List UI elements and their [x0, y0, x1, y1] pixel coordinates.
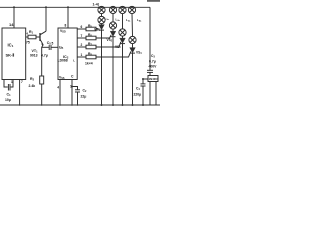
svg-text:R6: R6: [88, 33, 92, 38]
wire top bus: [0, 6, 150, 8]
svg-text:SK-Ⅱ: SK-Ⅱ: [6, 53, 15, 58]
resistor R7: [77, 46, 86, 48]
svg-text:1k×4: 1k×4: [85, 62, 93, 66]
wire emitter node down: [42, 45, 44, 76]
wire box right leg to bus: [155, 82, 157, 106]
svg-text:VS1: VS1: [94, 28, 100, 32]
lamp L1b: [98, 16, 105, 23]
svg-text:R1: R1: [29, 30, 34, 35]
svg-text:LD068: LD068: [58, 59, 68, 63]
svg-text:0.7μ: 0.7μ: [149, 60, 156, 64]
svg-text:9013: 9013: [30, 54, 38, 58]
svg-text:C1: C1: [7, 93, 12, 98]
svg-text:4.7μ: 4.7μ: [41, 54, 48, 58]
wire box left pin: [143, 78, 148, 80]
svg-text:4: 4: [57, 85, 59, 89]
svg-text:R7: R7: [88, 42, 92, 47]
wire IC1 pin7 to bottom bus: [19, 80, 21, 106]
svg-text:2.4k: 2.4k: [29, 84, 36, 88]
wire VS4 cathode to bus: [132, 53, 134, 105]
wire lamp column 1: [101, 14, 103, 25]
svg-text:C2: C2: [83, 89, 87, 94]
svg-text:R2: R2: [30, 77, 35, 82]
thyristor VS4: [130, 48, 136, 53]
lamp L3a: [119, 6, 126, 13]
wire collector to top bus: [45, 7, 47, 31]
svg-text:5: 5: [52, 42, 54, 46]
svg-text:UB: UB: [59, 46, 63, 51]
lamp L4a: [128, 6, 135, 13]
svg-text:1-4(: 1-4(: [93, 3, 100, 7]
svg-text:R8: R8: [88, 52, 92, 57]
lamp L3b: [119, 29, 126, 36]
node lamp top junctions: [101, 6, 103, 8]
resistor R1: [26, 36, 28, 38]
lamp L2b: [109, 22, 116, 29]
svg-text:L2a: L2a: [116, 18, 121, 22]
lamp L2a: [109, 6, 116, 13]
svg-text:VDD: VDD: [60, 29, 66, 34]
wire pin14 of IC1: [13, 7, 15, 28]
resistor R8: [77, 56, 86, 58]
wire lamp column 2: [112, 14, 114, 32]
svg-text:1: 1: [81, 53, 83, 57]
svg-text:C4: C4: [136, 87, 140, 92]
resistor R2: [40, 76, 44, 84]
IC U2 box: [58, 28, 77, 80]
svg-text:75: 75: [26, 41, 30, 45]
svg-text:2: 2: [81, 43, 83, 47]
svg-text:22μ: 22μ: [81, 95, 87, 99]
capacitor C4: [142, 79, 144, 84]
node Vdd junction: [67, 6, 69, 8]
svg-text:R5: R5: [88, 24, 92, 29]
svg-text:10μ: 10μ: [5, 98, 11, 102]
svg-text:400V: 400V: [149, 65, 158, 69]
node C4 junction: [142, 78, 144, 80]
node pin14 junction: [13, 6, 15, 8]
svg-text:1N4007: 1N4007: [149, 77, 159, 81]
svg-text:L1a: L1a: [105, 17, 110, 21]
wire IC2 pin C to bottom bus: [71, 80, 73, 106]
capacitor C1 loop: [4, 80, 8, 88]
svg-text:VS3: VS3: [115, 45, 121, 49]
wire lamp column 3: [122, 14, 124, 38]
node cathode bus junctions: [19, 104, 21, 106]
wire IC2 Vss to bottom bus: [59, 80, 61, 106]
wire VS1 cathode to bus: [101, 30, 103, 105]
svg-text:VSS: VSS: [59, 75, 65, 80]
svg-text:8: 8: [65, 24, 67, 28]
wire lamp column 4: [131, 14, 134, 48]
lamp L1a: [98, 6, 105, 13]
thyristor VS2: [110, 31, 116, 36]
svg-text:1: 1: [70, 84, 72, 88]
lamp L4b: [129, 36, 136, 43]
svg-text:IC1: IC1: [8, 43, 14, 49]
svg-text:L3a: L3a: [126, 18, 131, 22]
svg-text:220μ: 220μ: [134, 93, 142, 97]
svg-text:C: C: [71, 74, 74, 78]
svg-text:L4a: L4a: [137, 18, 142, 22]
wire IC2 Vdd pin8 to top bus: [67, 7, 69, 28]
svg-text:7: 7: [21, 80, 23, 84]
svg-text:7: 7: [81, 34, 83, 38]
thyristor VS1: [99, 25, 105, 30]
resistor R6: [77, 37, 86, 39]
svg-text:C3: C3: [151, 54, 155, 59]
wire bottom bus: [0, 104, 160, 106]
capacitor C3: [147, 69, 153, 71]
wire top-right crop smear: [147, 0, 160, 2]
svg-text:VS2: VS2: [107, 38, 113, 42]
svg-text:6: 6: [81, 25, 83, 29]
svg-text:L: L: [73, 59, 75, 63]
thyristor VS3: [120, 38, 126, 43]
wire R2 to bottom bus: [41, 84, 43, 105]
IC U1 box: [2, 28, 26, 80]
wire box bottom to bus: [149, 82, 151, 106]
capacitor C5: [42, 46, 49, 48]
diode box VD 220V unit: [148, 76, 158, 82]
resistor R5: [77, 28, 86, 30]
capacitor C2: [72, 87, 78, 90]
wire VS2 cathode to bus: [112, 37, 114, 105]
transistor Q1 VT1: [39, 33, 41, 41]
node collector junction: [45, 6, 47, 8]
svg-text:1: 1: [11, 80, 13, 84]
wire VS3 cathode to bus: [122, 44, 124, 105]
wire right edge: [149, 7, 151, 70]
svg-text:14: 14: [9, 22, 14, 27]
svg-text:VS4: VS4: [136, 51, 142, 55]
